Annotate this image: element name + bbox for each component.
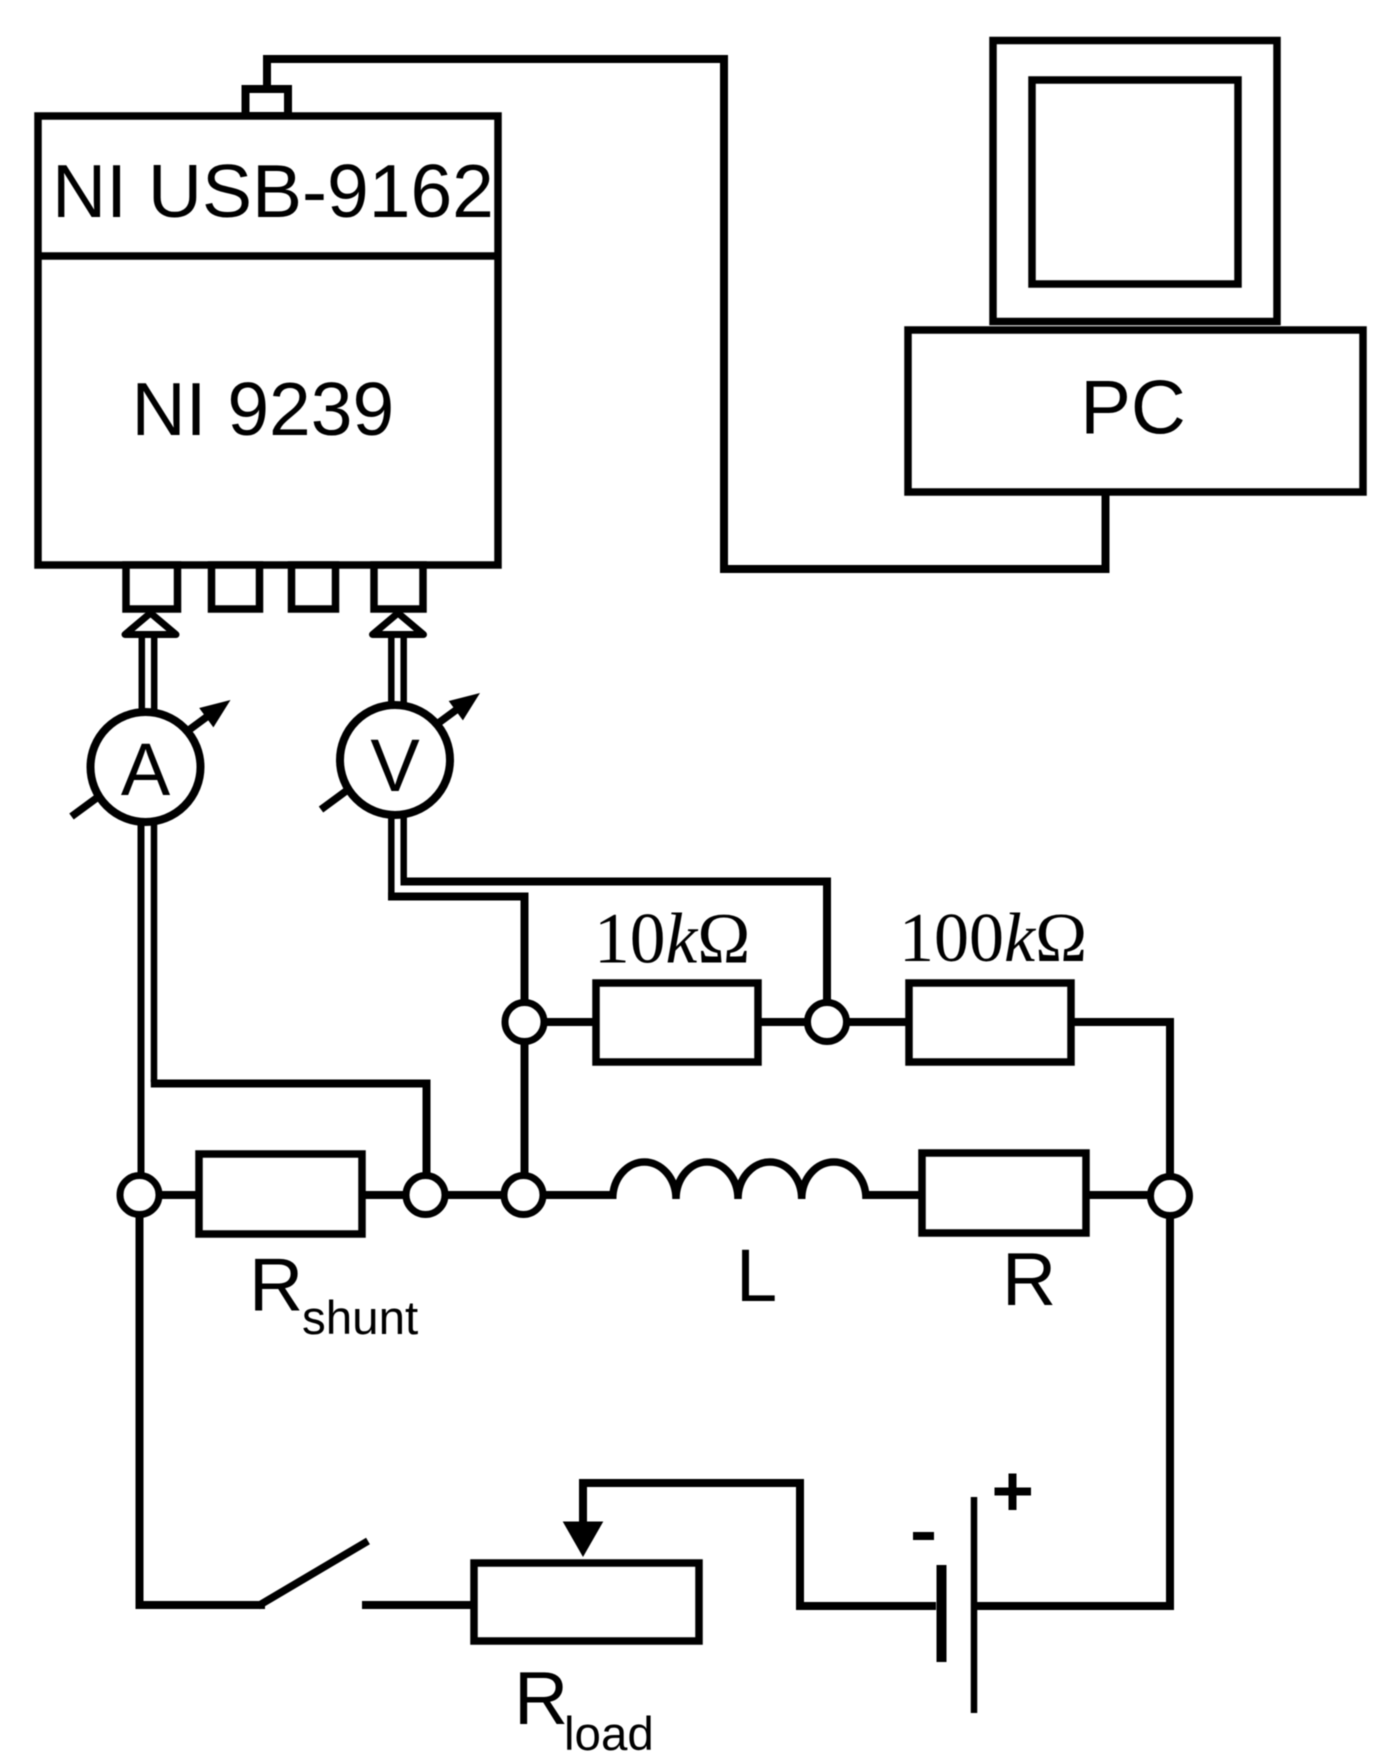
svg-text:shunt: shunt xyxy=(302,1292,418,1345)
resistor 100k xyxy=(909,983,1071,1062)
wire node N2 to node N3 xyxy=(444,1191,505,1199)
svg-text:R: R xyxy=(249,1243,303,1327)
svg-text:PC: PC xyxy=(1080,366,1186,451)
DAQ module box NI USB-9162 xyxy=(38,116,498,565)
label minus xyxy=(913,1532,934,1540)
connector tab 4 xyxy=(374,565,423,609)
wire Rshunt to node N2 xyxy=(362,1191,407,1199)
svg-text:NI 9239: NI 9239 xyxy=(132,367,395,451)
wire node N6 to 100k resistor xyxy=(845,1018,909,1026)
node N6 xyxy=(808,1003,847,1042)
wire node N1 to Rshunt xyxy=(158,1191,199,1199)
svg-text:R: R xyxy=(514,1656,568,1740)
node N2 xyxy=(406,1176,445,1215)
svg-text:A: A xyxy=(121,728,171,811)
node N4 xyxy=(1151,1177,1190,1216)
ammeter A1 circle xyxy=(91,712,201,822)
arrowhead into tab 1 xyxy=(125,613,176,635)
wire double-line shaft from ammeter to tab 1 xyxy=(142,631,154,714)
label Rshunt xyxy=(249,1243,418,1346)
svg-text:R: R xyxy=(1002,1237,1056,1321)
svg-text:100kΩ: 100kΩ xyxy=(899,900,1087,977)
connector tab 3 xyxy=(292,565,336,609)
label Rload xyxy=(514,1656,654,1761)
wire 10k resistor to node N6 xyxy=(758,1018,809,1026)
divider line inside DAQ box xyxy=(38,252,498,260)
wire node N3 to inductor xyxy=(542,1191,614,1199)
inductor L xyxy=(613,1162,866,1199)
wire 100k resistor right to corner xyxy=(1071,1018,1170,1026)
wire switch fixed contact to Rload xyxy=(362,1601,474,1609)
svg-text:V: V xyxy=(370,724,420,807)
wire double-line shaft from voltmeter to tab 4 xyxy=(391,631,403,710)
potentiometer Rload xyxy=(474,1563,699,1641)
arrowhead into tab 4 xyxy=(373,613,424,635)
wire voltmeter left lead to node N5 xyxy=(388,897,525,1006)
resistor 10k xyxy=(596,983,758,1062)
node N1 xyxy=(120,1176,159,1215)
wire voltmeter left lead thin part xyxy=(388,812,395,895)
wire inductor to resistor R xyxy=(864,1191,922,1199)
resistor R xyxy=(922,1153,1086,1233)
voltmeter V1 diagonal adjustment arrow xyxy=(321,693,480,810)
PC monitor outer box xyxy=(993,41,1277,322)
voltmeter V1 circle xyxy=(340,705,450,815)
node N3 xyxy=(504,1176,543,1215)
wire ammeter left lead down to node N1 xyxy=(138,818,145,1180)
wire node N5 to 10k resistor xyxy=(543,1018,596,1026)
resistor Rshunt xyxy=(199,1154,362,1234)
PC monitor screen xyxy=(1032,80,1238,284)
connector tab 2 xyxy=(212,565,260,609)
battery negative plate xyxy=(937,1565,947,1662)
wire ammeter right lead to node N2 xyxy=(151,1084,427,1181)
wire USB cable from DAQ to PC xyxy=(267,59,1106,569)
ammeter A1 diagonal adjustment arrow xyxy=(72,700,231,817)
switch blade xyxy=(258,1541,368,1606)
USB connector on DAQ top xyxy=(246,89,289,116)
wire voltmeter right lead thin part xyxy=(400,812,407,880)
wire battery positive to right riser xyxy=(977,1602,1174,1610)
svg-text:10kΩ: 10kΩ xyxy=(594,900,750,979)
wiper arrow shaft of Rload xyxy=(583,1483,936,1606)
wire resistor R to node N4 xyxy=(1086,1191,1152,1199)
wire node N5 down to node N3 xyxy=(521,1041,529,1176)
svg-text:load: load xyxy=(564,1708,654,1761)
label plus xyxy=(995,1474,1032,1511)
wire ammeter right lead thin part xyxy=(151,818,158,1082)
wire node N4 down to bottom right corner xyxy=(1166,1214,1174,1610)
wire voltmeter right lead to node N6 xyxy=(401,882,828,1006)
wire corner down to node N4 xyxy=(1166,1018,1174,1178)
connector tab 1 xyxy=(126,565,178,609)
svg-text:L: L xyxy=(736,1234,777,1317)
node N5 xyxy=(505,1003,544,1042)
wire node N1 down to switch xyxy=(140,1213,266,1605)
wiper arrowhead of Rload xyxy=(563,1522,604,1558)
svg-text:NI USB-9162: NI USB-9162 xyxy=(52,149,494,233)
PC base box xyxy=(908,330,1363,492)
battery positive plate xyxy=(971,1497,978,1713)
